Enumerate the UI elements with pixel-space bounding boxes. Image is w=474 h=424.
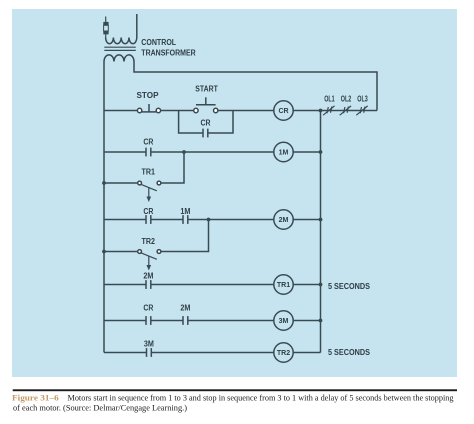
svg-text:CR: CR (278, 108, 288, 115)
svg-text:of each motor. (Source: Delmar: of each motor. (Source: Delmar/Cengage L… (13, 403, 187, 413)
coil TR1 (274, 275, 293, 294)
wire coil TR2 to bus (293, 352, 321, 354)
contact CR holding (NO) (203, 129, 208, 138)
svg-text:Figure 31–6: Figure 31–6 (12, 392, 59, 402)
wire rung3 left segment (104, 219, 146, 221)
contact CR rung2 (NO) (146, 148, 151, 157)
wire CR holding branch right vertical (208, 111, 233, 134)
wire TR2 branch left segment (104, 251, 138, 253)
wire rung3 to coil 2M (188, 219, 274, 221)
svg-text:2M: 2M (143, 272, 153, 281)
transformer primary winding (106, 38, 137, 44)
label CONTROL TRANSFORMER (141, 38, 196, 58)
wire rung4 left segment (104, 284, 146, 286)
svg-text:STOP: STOP (137, 91, 160, 100)
coil 3M (274, 311, 293, 330)
wire rung5 left segment (104, 320, 146, 322)
node junction rung3 TR2 tap (207, 218, 211, 222)
svg-text:3M: 3M (144, 339, 154, 348)
wire secondary right to right rail (L2 top) (134, 62, 377, 111)
wire rung6 left segment (104, 352, 147, 354)
svg-text:2M: 2M (180, 304, 190, 313)
timed contact TR2 (NOTC) (138, 250, 161, 271)
transformer secondary winding (104, 55, 134, 62)
wire coil 2M to bus (293, 219, 321, 221)
svg-text:3M: 3M (279, 318, 289, 325)
wire OL section (321, 110, 378, 112)
coil 1M (274, 142, 293, 161)
wire rung2 left segment (104, 151, 146, 153)
wire rung1 between STOP and START (161, 110, 194, 112)
node junction left rail TR2 branch (102, 250, 106, 254)
wire rung4 to coil TR1 (151, 284, 274, 286)
contact CR rung5 (NO) (146, 316, 151, 325)
node junction OL (319, 109, 323, 113)
wire rung2 to coil 1M (151, 151, 274, 153)
svg-text:CR: CR (143, 207, 153, 216)
wire rung1 left segment (104, 110, 137, 112)
svg-text:TR2: TR2 (277, 350, 290, 357)
svg-text:TR2: TR2 (142, 237, 156, 246)
wire TR2 branch to rung3 (161, 220, 209, 252)
wire left rail (103, 62, 105, 353)
svg-text:1M: 1M (279, 150, 289, 157)
svg-text:TR1: TR1 (277, 282, 290, 289)
pushbutton STOP (NC) (137, 104, 160, 113)
transformer core (104, 47, 136, 50)
node bus rung2 (319, 150, 323, 154)
wire coil CR to OL junction (293, 110, 321, 112)
svg-text:TRANSFORMER: TRANSFORMER (141, 48, 196, 57)
overload contact OL2 (340, 106, 351, 115)
svg-text:START: START (195, 84, 218, 93)
wire CR holding branch left vertical (179, 111, 203, 134)
wire primary right terminal (136, 14, 138, 38)
wire rung1 START to coil CR (218, 110, 274, 112)
svg-text:2M: 2M (279, 217, 289, 224)
svg-text:CR: CR (143, 138, 153, 147)
fuse (103, 17, 108, 38)
wire rung5 to coil 3M (188, 320, 274, 322)
svg-text:CR: CR (143, 304, 153, 313)
contact 1M rung3 (NO) (183, 215, 188, 224)
coil TR2 (274, 343, 293, 362)
wire rung6 to coil TR2 (151, 352, 274, 354)
svg-text:1M: 1M (180, 207, 190, 216)
svg-text:OL1: OL1 (324, 95, 335, 104)
wire TR1 branch left segment (104, 182, 138, 184)
timed contact TR1 (NOTC) (138, 181, 161, 202)
node bus rung4 (319, 283, 323, 287)
wire coil TR1 to bus (293, 284, 321, 286)
wire TR1 branch to rung2 (161, 152, 184, 183)
node junction left rail TR1 branch (102, 181, 106, 185)
svg-text:Motors start in sequence from: Motors start in sequence from 1 to 3 and… (68, 392, 455, 402)
contact CR rung3 (NO) (146, 215, 151, 224)
svg-text:5 SECONDS: 5 SECONDS (328, 282, 371, 291)
contact 3M rung6 (NO) (147, 348, 152, 357)
contact 2M rung5 (NO) (183, 316, 188, 325)
wire rung5 middle segment (151, 320, 183, 322)
svg-text:5 SECONDS: 5 SECONDS (328, 348, 371, 357)
wire right return bus (320, 111, 322, 353)
svg-text:CR: CR (201, 118, 211, 127)
caption rule (13, 389, 457, 391)
svg-text:OL2: OL2 (341, 95, 352, 104)
svg-text:TR1: TR1 (142, 168, 156, 177)
node bus rung5 (319, 319, 323, 323)
overload contact OL1 (323, 106, 334, 115)
wire coil 3M to bus (293, 320, 321, 322)
svg-text:OL3: OL3 (357, 95, 368, 104)
wire rung3 middle segment (151, 219, 183, 221)
svg-text:CONTROL: CONTROL (141, 38, 176, 47)
node bus rung3 (319, 218, 323, 222)
wire coil 1M to bus (293, 151, 321, 153)
contact 2M rung4 (NO) (146, 280, 151, 289)
pushbutton START (NO) (194, 97, 218, 112)
node junction rung2 TR1 tap (182, 150, 186, 154)
overload contact OL3 (356, 106, 367, 115)
coil CR (274, 101, 293, 120)
coil 2M (274, 210, 293, 229)
